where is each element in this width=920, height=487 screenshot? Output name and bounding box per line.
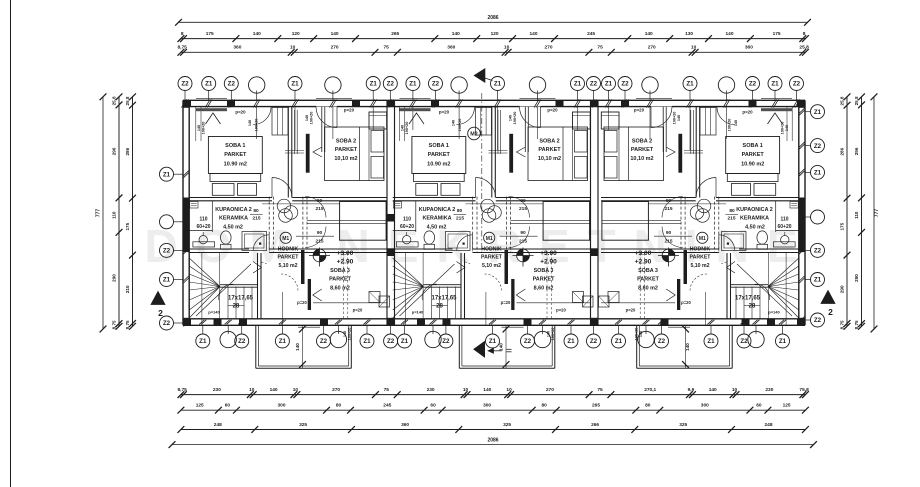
- SOBA3 double lines: [602, 219, 681, 221]
- unit 2 geometry: [393, 99, 593, 369]
- washing machine: [396, 242, 418, 247]
- hodnik boiler circles: [697, 199, 711, 213]
- svg-text:140: 140: [547, 331, 551, 337]
- hodnik axis short: [281, 292, 283, 325]
- svg-text:Z1: Z1: [574, 81, 582, 88]
- svg-text:Z2: Z2: [590, 338, 598, 345]
- svg-text:2: 2: [828, 307, 833, 317]
- svg-text:190+20: 190+20: [513, 112, 517, 125]
- svg-text:PARKET: PARKET: [278, 255, 300, 261]
- svg-text:60+20: 60+20: [400, 224, 414, 230]
- section marker triangle right: [821, 291, 835, 304]
- svg-text:Z1: Z1: [814, 109, 822, 116]
- bottom dimension chain 2: [181, 409, 806, 411]
- svg-text:60+20: 60+20: [196, 224, 210, 230]
- svg-text:10: 10: [293, 387, 299, 393]
- svg-text:Z2: Z2: [228, 81, 236, 88]
- soba3 double door arcs: [305, 197, 326, 218]
- svg-text:17x17,65: 17x17,65: [228, 296, 254, 302]
- window jamb lines: [791, 107, 793, 141]
- svg-text:PARKET: PARKET: [224, 152, 247, 158]
- svg-text:PARKET: PARKET: [631, 147, 654, 153]
- svg-text:p=20: p=20: [501, 300, 511, 305]
- svg-text:248: 248: [764, 422, 772, 428]
- svg-text:Z1: Z1: [163, 277, 171, 284]
- svg-text:130: 130: [685, 31, 693, 37]
- svg-text:140: 140: [295, 343, 300, 351]
- svg-text:Z1: Z1: [814, 170, 822, 177]
- bathroom door arc 2: [253, 235, 269, 251]
- svg-text:60+20: 60+20: [777, 224, 791, 230]
- svg-text:Z2: Z2: [793, 81, 801, 88]
- soba3 floor line: [517, 302, 591, 304]
- wardrobe SOBA1: [700, 108, 716, 136]
- hodnik-soba3 dashed lines: [546, 253, 548, 319]
- wardrobe dark bar: [678, 134, 682, 173]
- section marker triangle left: [151, 292, 165, 305]
- svg-text:Z1: Z1: [779, 338, 787, 345]
- svg-text:Z1: Z1: [814, 277, 822, 284]
- chimney block east: [369, 112, 387, 129]
- svg-text:80: 80: [645, 403, 651, 409]
- svg-text:140: 140: [677, 115, 681, 121]
- window door arc soba1: [717, 107, 735, 125]
- svg-text:Z1: Z1: [771, 81, 779, 88]
- svg-text:+3.00: +3.00: [337, 250, 354, 257]
- left dimension overall 777: [102, 97, 104, 329]
- svg-text:10: 10: [290, 45, 296, 51]
- svg-text:325: 325: [503, 422, 511, 428]
- WC: [221, 231, 232, 244]
- window sill lines bottom: [298, 326, 320, 328]
- ref box: [393, 202, 401, 209]
- svg-text:PARKET: PARKET: [481, 255, 503, 261]
- svg-text:9,9: 9,9: [688, 387, 695, 393]
- svg-text:4,50 m2: 4,50 m2: [427, 225, 447, 231]
- svg-text:215: 215: [315, 239, 323, 245]
- grid bubble bottom Z1 x=711: [704, 334, 718, 348]
- svg-text:270: 270: [546, 387, 554, 393]
- svg-text:325: 325: [299, 422, 307, 428]
- tub partition: [211, 201, 213, 232]
- svg-text:60: 60: [756, 403, 762, 409]
- svg-text:M1: M1: [282, 236, 289, 242]
- building centre axis dash-dot: [481, 93, 483, 253]
- shower: [722, 232, 747, 251]
- grid bubble top Z2 x=625: [618, 77, 632, 91]
- svg-text:Z1: Z1: [409, 81, 417, 88]
- svg-text:KUPAONICA 2: KUPAONICA 2: [215, 207, 252, 213]
- svg-text:140: 140: [499, 343, 504, 351]
- page border line: [10, 0, 12, 487]
- svg-text:360: 360: [401, 422, 409, 428]
- svg-text:Z1: Z1: [363, 338, 371, 345]
- svg-text:80: 80: [542, 403, 548, 409]
- grid bubble top Z1 x=208.7: [202, 77, 216, 91]
- svg-text:p=20: p=20: [626, 308, 636, 313]
- svg-text:KERAMIKA: KERAMIKA: [740, 216, 769, 222]
- unit 1 geometry: [189, 99, 389, 369]
- grid bubble left Z2 y=323: [160, 316, 174, 330]
- svg-text:140: 140: [725, 31, 733, 37]
- svg-text:Z1: Z1: [494, 81, 502, 88]
- svg-text:10: 10: [506, 387, 512, 393]
- svg-text:215: 215: [664, 206, 672, 212]
- svg-text:Z2: Z2: [442, 338, 450, 345]
- svg-text:17x17,65: 17x17,65: [735, 296, 761, 302]
- tub partition: [775, 201, 777, 232]
- grid bubble top Z2 x=231.3: [224, 77, 238, 91]
- outer wall top: [183, 99, 805, 101]
- svg-text:270,1: 270,1: [644, 387, 656, 393]
- svg-text:KERAMIKA: KERAMIKA: [422, 216, 451, 222]
- svg-text:360: 360: [447, 45, 455, 51]
- svg-text:Z2: Z2: [163, 248, 171, 255]
- svg-text:140: 140: [401, 125, 405, 131]
- grid bubble top Z2 x=185: [178, 77, 192, 91]
- grid bubble top Z1 x=690: [683, 77, 697, 91]
- balcony door arc top: [520, 107, 541, 128]
- svg-text:Z2: Z2: [740, 338, 748, 345]
- porch dim: [302, 325, 304, 368]
- window jamb lines: [398, 107, 400, 141]
- svg-text:75: 75: [384, 387, 390, 393]
- svg-text:245: 245: [587, 31, 595, 37]
- svg-text:Z1: Z1: [291, 81, 299, 88]
- svg-text:KUPAONICA 2: KUPAONICA 2: [736, 207, 773, 213]
- washing machine: [193, 242, 215, 247]
- svg-text:10.90 m2: 10.90 m2: [224, 162, 247, 168]
- stairs direction arrow: [196, 264, 251, 316]
- svg-text:8,75: 8,75: [125, 320, 130, 329]
- svg-text:Z1: Z1: [199, 338, 207, 345]
- unit 3 geometry (mirrored): [599, 99, 799, 369]
- svg-text:300: 300: [483, 403, 491, 409]
- door arc bedroom: [476, 178, 496, 198]
- svg-text:Z1: Z1: [279, 338, 287, 345]
- svg-text:SOBA 1: SOBA 1: [429, 143, 449, 149]
- level marker circle: [662, 249, 675, 262]
- door swing symbol <: [313, 147, 322, 157]
- svg-text:28: 28: [749, 304, 756, 310]
- svg-text:190+20: 190+20: [255, 119, 259, 132]
- door swing symbol <: [517, 147, 526, 157]
- svg-text:SOBA 2: SOBA 2: [336, 139, 356, 145]
- bedroom south wall: [716, 197, 799, 199]
- grid bubble bottom axis x=338.4: [330, 331, 346, 347]
- svg-text:SOBA 3: SOBA 3: [638, 268, 658, 274]
- svg-text:HODNIK: HODNIK: [278, 247, 299, 253]
- svg-text:80: 80: [457, 208, 463, 214]
- svg-text:140: 140: [452, 120, 456, 126]
- hodnik-soba3 dashed lines: [644, 253, 646, 319]
- svg-text:80: 80: [336, 403, 342, 409]
- svg-text:5,10 m2: 5,10 m2: [278, 263, 297, 269]
- svg-text:+2.90: +2.90: [540, 259, 557, 266]
- svg-text:+2.90: +2.90: [635, 259, 652, 266]
- vestibule west wall: [287, 107, 289, 198]
- grid bubble bottom Z2 x=323.5: [317, 334, 331, 348]
- svg-text:265: 265: [592, 403, 600, 409]
- svg-text:10: 10: [463, 387, 469, 393]
- svg-text:PARKET: PARKET: [690, 255, 712, 261]
- window sill bar: [761, 108, 792, 111]
- svg-text:SOBA 2: SOBA 2: [539, 139, 559, 145]
- balcony door arc top: [316, 107, 337, 128]
- svg-text:140: 140: [270, 387, 278, 393]
- vestibule east wall upper: [321, 107, 323, 152]
- grid bubble bottom Z1 x=367: [360, 334, 374, 348]
- svg-text:140: 140: [734, 120, 738, 126]
- svg-text:270: 270: [648, 45, 656, 51]
- soba3 pocket track dashed: [505, 197, 507, 253]
- svg-text:SOBA 3: SOBA 3: [330, 268, 350, 274]
- svg-text:p=20: p=20: [353, 308, 363, 313]
- svg-text:PARKET: PARKET: [538, 147, 561, 153]
- svg-text:125: 125: [196, 403, 204, 409]
- grid bubble left Z1 y=279.5: [160, 273, 174, 287]
- svg-text:p=140: p=140: [412, 310, 424, 315]
- SOBA3 west bar lower: [511, 279, 514, 310]
- grid bubble top axis x=332.9: [325, 77, 341, 93]
- svg-text:17x17,65: 17x17,65: [431, 296, 457, 302]
- svg-text:215: 215: [315, 206, 323, 212]
- window door arc soba1: [457, 107, 475, 125]
- svg-text:Z1: Z1: [205, 81, 213, 88]
- left dimension chain inner: [118, 97, 120, 326]
- hodnik axis short: [485, 292, 487, 325]
- SOBA3 double lines: [307, 219, 386, 221]
- grid bubble right Z1 y=172.4: [811, 165, 825, 179]
- svg-text:190+20: 190+20: [405, 122, 409, 135]
- grid bubble bottom axis x=646: [638, 331, 654, 347]
- svg-text:10: 10: [249, 387, 255, 393]
- svg-text:360: 360: [233, 45, 241, 51]
- grid bubble bottom Z1 x=571: [564, 334, 578, 348]
- vestibule niche lines: [497, 110, 499, 154]
- grid bubble left Z1 y=174.2: [160, 167, 174, 181]
- stairs: [189, 258, 220, 287]
- top dimension chain detail: [181, 38, 806, 40]
- svg-text:140: 140: [685, 343, 690, 351]
- door swing symbol soba3: [666, 289, 675, 301]
- svg-text:140: 140: [452, 31, 460, 37]
- svg-text:300: 300: [277, 403, 285, 409]
- svg-text:2086: 2086: [487, 15, 498, 21]
- wardrobe SOBA1: [272, 108, 288, 136]
- grid bubble right Z2 y=320: [811, 313, 825, 327]
- roof caret symbols: [206, 113, 221, 124]
- hodnik dashed arc: [690, 274, 707, 291]
- grid bubble top axis x=459.1: [451, 77, 467, 93]
- svg-text:PARKET: PARKET: [742, 152, 765, 158]
- svg-text:M1: M1: [486, 236, 493, 242]
- hodnik-soba3 dashed lines: [343, 253, 345, 319]
- outer wall left: [182, 100, 184, 325]
- svg-text:215: 215: [519, 239, 527, 245]
- door swing symbol <: [666, 147, 675, 157]
- vestibule east wall upper: [524, 107, 526, 152]
- soba3 pocket track dashed: [684, 197, 686, 253]
- vestibule west wall: [491, 107, 493, 198]
- svg-text:140: 140: [509, 115, 513, 121]
- svg-text:125: 125: [783, 403, 791, 409]
- svg-text:p=20: p=20: [235, 110, 246, 115]
- svg-text:80: 80: [253, 208, 259, 214]
- svg-text:25,8: 25,8: [125, 96, 130, 105]
- SOBA3 large rect: [602, 202, 649, 241]
- bed SOBA 1: [726, 137, 780, 174]
- SOBA3 west bar: [301, 250, 305, 284]
- svg-text:140: 140: [305, 115, 309, 121]
- svg-text:8: 8: [181, 31, 184, 37]
- vestibule niche lines: [294, 110, 296, 154]
- SOBA3 west bar lower: [308, 279, 311, 310]
- svg-text:110: 110: [199, 217, 207, 223]
- svg-text:p=20: p=20: [344, 108, 355, 113]
- grid bubble right Z1 y=111.7: [811, 105, 825, 119]
- grid bubble right Z2 y=145.6: [811, 139, 825, 153]
- party wall 1: [386, 100, 388, 325]
- bed SOBA 2: [604, 127, 664, 181]
- svg-text:8,60 m2: 8,60 m2: [534, 286, 554, 292]
- svg-text:Z1: Z1: [615, 338, 623, 345]
- arrow bottom center: [474, 342, 485, 358]
- right dimension chain inner2: [861, 97, 863, 326]
- M1 bubble: [697, 232, 708, 243]
- svg-text:110: 110: [111, 211, 116, 219]
- grid bubble top Z1 x=775: [768, 77, 782, 91]
- grid bubble bottom Z2 x=241.7: [235, 334, 249, 348]
- window sill lines top: [196, 98, 227, 100]
- svg-text:140: 140: [253, 31, 261, 37]
- top dimension chain 2: [181, 51, 806, 53]
- svg-text:DOM NEKRETNINE: DOM NEKRETNINE: [144, 220, 815, 272]
- bedroom south wall: [393, 197, 476, 199]
- svg-text:230: 230: [427, 387, 435, 393]
- svg-text:190+20: 190+20: [635, 328, 639, 341]
- svg-text:25,8: 25,8: [799, 45, 809, 51]
- svg-text:p=20: p=20: [297, 300, 307, 305]
- svg-text:777: 777: [95, 209, 101, 218]
- wardrobe dark bar: [509, 134, 513, 173]
- svg-text:p=140: p=140: [208, 310, 220, 315]
- WC: [424, 231, 435, 244]
- bathroom south wall / middle wall: [393, 248, 453, 250]
- grid bubble left axis y=221.8: [160, 215, 174, 229]
- svg-text:8,75: 8,75: [111, 320, 116, 329]
- svg-text:SOBA 1: SOBA 1: [225, 143, 245, 149]
- svg-text:Z1: Z1: [707, 338, 715, 345]
- svg-text:Z1: Z1: [686, 81, 694, 88]
- svg-text:2: 2: [158, 308, 163, 318]
- door arc bedroom: [272, 178, 292, 198]
- window sill bar: [400, 108, 431, 111]
- svg-text:Z2: Z2: [320, 338, 328, 345]
- grid bubble bottom Z2 x=593.5: [587, 334, 601, 348]
- svg-text:KUPAONICA 2: KUPAONICA 2: [419, 207, 456, 213]
- svg-text:296: 296: [854, 147, 859, 155]
- bathroom door arc 2: [719, 235, 735, 251]
- svg-text:Z2: Z2: [814, 143, 822, 150]
- svg-text:p=20: p=20: [681, 300, 691, 305]
- svg-text:8,60 m2: 8,60 m2: [330, 286, 350, 292]
- svg-text:Z2: Z2: [181, 81, 189, 88]
- bottom dimension overall 2086: [172, 444, 814, 446]
- svg-text:75,8: 75,8: [799, 387, 809, 393]
- svg-text:60: 60: [430, 403, 436, 409]
- svg-text:M1: M1: [699, 236, 706, 242]
- grid bubble bottom axis x=228.2: [220, 331, 236, 347]
- window sill lines bottom: [668, 326, 690, 328]
- svg-text:290: 290: [111, 274, 116, 282]
- stairs east wall: [730, 253, 732, 319]
- shower: [446, 232, 471, 251]
- svg-text:+2.90: +2.90: [337, 259, 354, 266]
- grid bubble bottom Z2 x=744: [737, 334, 751, 348]
- window door arc soba1: [253, 107, 271, 125]
- porch outline: [255, 325, 257, 368]
- svg-text:28: 28: [436, 304, 443, 310]
- svg-text:+3.00: +3.00: [540, 250, 557, 257]
- soba3 double door arcs: [662, 197, 683, 218]
- svg-text:8,60 m2: 8,60 m2: [638, 286, 658, 292]
- SOBA3 desk: [369, 292, 380, 303]
- svg-text:140: 140: [785, 125, 789, 131]
- vestibule shelf: [684, 150, 703, 152]
- stairs east wall: [257, 253, 259, 319]
- svg-text:90: 90: [317, 198, 323, 204]
- svg-text:190+20: 190+20: [551, 328, 555, 341]
- svg-text:296: 296: [111, 147, 116, 155]
- svg-text:PARKET: PARKET: [428, 152, 451, 158]
- svg-text:Z2: Z2: [432, 81, 440, 88]
- grid bubble bottom Z1 x=202.8: [196, 334, 210, 348]
- stairs axis lines: [201, 253, 203, 325]
- svg-text:175: 175: [839, 222, 844, 230]
- svg-text:190+20: 190+20: [348, 328, 352, 341]
- svg-text:140: 140: [483, 387, 491, 393]
- svg-text:90: 90: [666, 230, 672, 236]
- wall piers left: [183, 100, 189, 108]
- svg-text:777: 777: [874, 209, 880, 218]
- svg-text:325: 325: [679, 422, 687, 428]
- tub partition: [415, 201, 417, 232]
- bathroom south wall / middle wall: [739, 248, 799, 250]
- svg-text:110: 110: [854, 211, 859, 219]
- chimney block east: [601, 112, 619, 129]
- svg-text:175: 175: [125, 222, 130, 230]
- door swing symbol soba3: [516, 289, 525, 301]
- svg-text:Z2: Z2: [658, 338, 666, 345]
- SOBA3 large rect: [543, 202, 590, 241]
- door arc bedroom: [696, 178, 716, 198]
- SOBA3 west bar: [684, 250, 688, 284]
- hodnik dashed arc: [485, 274, 502, 291]
- svg-text:PARKET: PARKET: [637, 277, 659, 283]
- svg-text:215: 215: [456, 216, 464, 222]
- svg-text:8,75: 8,75: [854, 320, 859, 329]
- grid bubble top Z1 x=412.9: [406, 77, 420, 91]
- svg-text:215: 215: [519, 206, 527, 212]
- svg-text:PARKET: PARKET: [329, 277, 351, 283]
- ref box: [790, 202, 798, 209]
- bed SOBA 2: [325, 127, 385, 181]
- svg-text:5,10 m2: 5,10 m2: [690, 263, 709, 269]
- svg-text:p=140: p=140: [768, 310, 780, 315]
- vestibule west wall: [699, 107, 701, 198]
- grid bubble bottom Z2 x=390.6: [384, 334, 398, 348]
